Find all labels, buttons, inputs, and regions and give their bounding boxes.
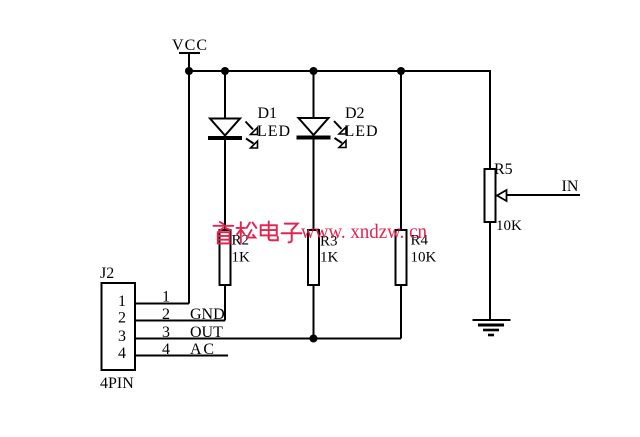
svg-text:10K: 10K	[496, 218, 522, 234]
svg-text:1K: 1K	[320, 250, 339, 266]
svg-text:2: 2	[162, 306, 170, 323]
svg-text:LED: LED	[345, 123, 378, 140]
svg-text:www. xndzw. cn: www. xndzw. cn	[301, 221, 427, 243]
svg-text:OUT: OUT	[190, 324, 223, 341]
svg-text:1: 1	[162, 289, 170, 306]
svg-text:IN: IN	[562, 178, 579, 195]
svg-text:4PIN: 4PIN	[100, 375, 134, 392]
svg-text:VCC: VCC	[172, 37, 207, 54]
svg-text:D1: D1	[258, 105, 278, 122]
svg-text:GND: GND	[190, 306, 225, 323]
svg-text:1K: 1K	[232, 250, 251, 266]
svg-text:LED: LED	[257, 123, 290, 140]
svg-text:1: 1	[118, 293, 126, 310]
svg-text:4: 4	[162, 341, 170, 358]
svg-text:3: 3	[118, 328, 126, 345]
svg-text:J2: J2	[100, 265, 114, 282]
svg-text:10K: 10K	[411, 250, 437, 266]
svg-text:3: 3	[162, 324, 170, 341]
svg-text:D2: D2	[345, 105, 365, 122]
svg-text:2: 2	[118, 310, 126, 327]
svg-text:4: 4	[118, 345, 126, 362]
svg-text:R5: R5	[494, 161, 513, 178]
